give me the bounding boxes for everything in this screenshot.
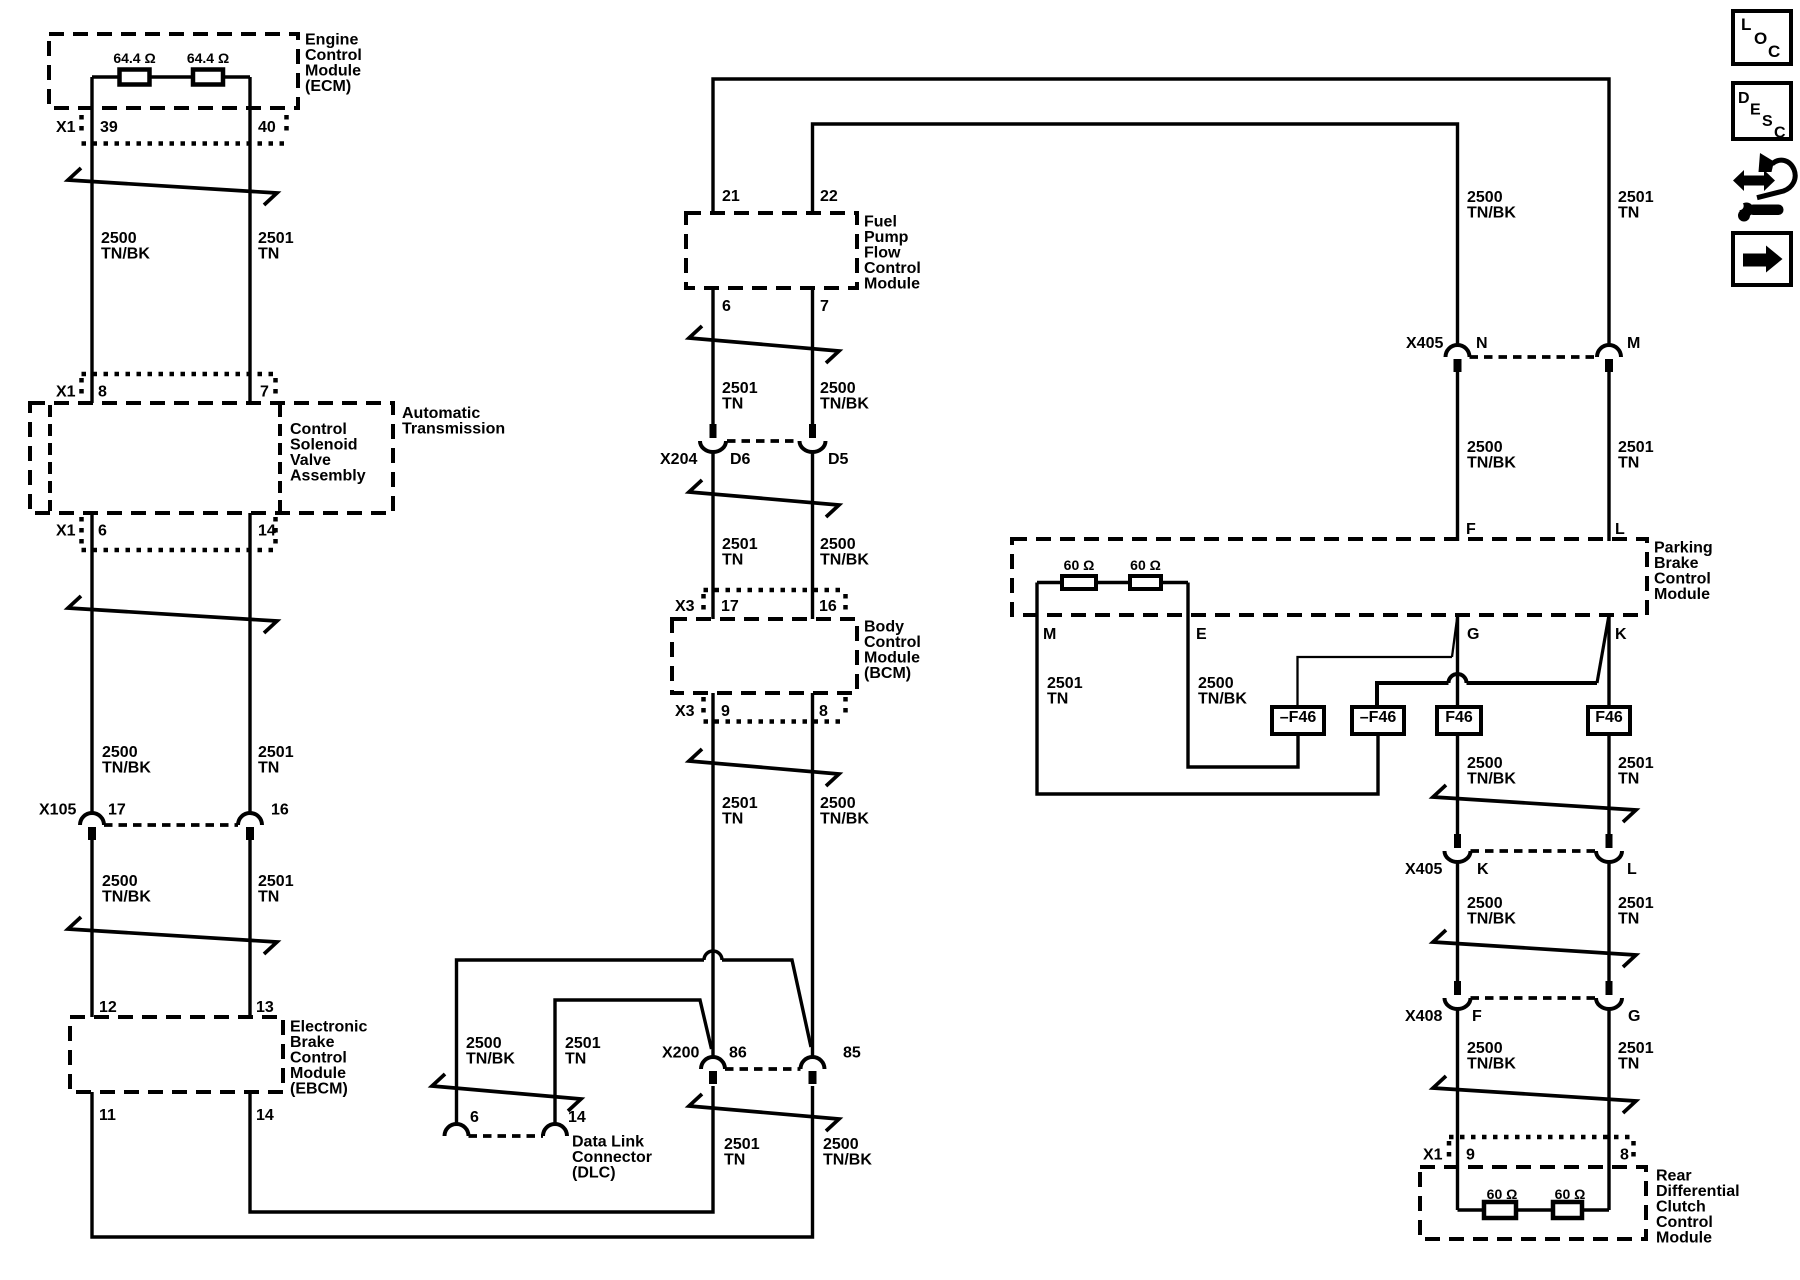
svg-text:14: 14 <box>256 1107 274 1124</box>
crossing break symbol (right pair, lower) <box>1433 1076 1636 1113</box>
wire RDCCM internal resistor leads <box>1458 1208 1610 1211</box>
connector X105 pin 17 <box>80 813 104 840</box>
svg-text:X1: X1 <box>56 119 76 136</box>
wire F46 left down to X405 K <box>1456 734 1459 834</box>
connector X405 K/L tie line <box>1471 849 1597 853</box>
svg-text:16: 16 <box>819 598 837 615</box>
svg-text:9: 9 <box>721 703 730 720</box>
Control Solenoid Valve Assembly left edge <box>278 405 282 511</box>
connector X408 tie line <box>1471 996 1597 1000</box>
svg-text:60 Ω: 60 Ω <box>1064 557 1095 573</box>
crossing break symbol (X200 pair) <box>689 1094 839 1131</box>
svg-text:6: 6 <box>98 523 107 540</box>
wire PBCM pin K main down to F46 <box>1607 615 1610 707</box>
connector row X3 (BCM pins 17/16) <box>704 590 846 615</box>
resistor 64.4 ohm (left, ECM internal) <box>120 70 150 85</box>
wire X408 G down into RDCCM <box>1607 1009 1610 1210</box>
wire DLC pin 6 branch to X200 85 <box>457 960 812 1124</box>
svg-text:17: 17 <box>108 802 126 819</box>
wire PBCM pin E internal <box>1186 583 1189 616</box>
svg-text:F46: F46 <box>1445 709 1473 726</box>
icon double-headed arrow <box>1733 170 1775 191</box>
wire PBCM pin G branch diagonal <box>1452 615 1458 657</box>
icon box LOC <box>1733 11 1791 64</box>
wire G branch horizontal to -F46 left <box>1298 657 1453 707</box>
wire hop over vertical at (713,960) <box>704 951 722 960</box>
svg-text:X1: X1 <box>56 384 76 401</box>
Automatic Transmission inner left edge <box>48 405 52 511</box>
fuse box F46 (left) <box>1437 707 1481 734</box>
svg-text:–F46: –F46 <box>1360 709 1397 726</box>
crossing break symbol (left pair, lower) <box>68 917 277 954</box>
wire 2501 TN from ECM pin 40 down <box>248 77 251 1017</box>
connector row X1 (ECM pins 39/40) <box>82 115 287 144</box>
connector X408 pin G <box>1596 981 1622 1009</box>
svg-text:M: M <box>1627 335 1640 352</box>
wire BCM X3-9 down to X200 86 <box>711 693 714 1057</box>
resistor 60 ohm (PBCM left) <box>1062 576 1096 589</box>
svg-text:86: 86 <box>729 1045 747 1062</box>
wire 2500 TN/BK FPFCM pin 22 to X405 N <box>813 124 1458 345</box>
wire EBCM pin 11 to X200 pin 85 <box>92 1086 813 1237</box>
svg-text:8: 8 <box>1620 1147 1629 1164</box>
svg-text:E: E <box>1196 626 1207 643</box>
svg-text:13: 13 <box>256 999 274 1016</box>
svg-text:X1: X1 <box>1423 1147 1443 1164</box>
svg-text:L: L <box>1627 861 1637 878</box>
svg-text:X408: X408 <box>1405 1008 1442 1025</box>
wire 2501 TN FPFCM pin 21 to X405 M <box>713 79 1609 345</box>
svg-text:39: 39 <box>100 119 118 136</box>
wire -F46 right to PBCM pin M <box>1037 615 1378 794</box>
Engine Control Module (ECM) box <box>49 34 298 108</box>
svg-text:9: 9 <box>1466 1147 1475 1164</box>
svg-text:D6: D6 <box>730 451 751 468</box>
resistor 60 ohm (RDCCM left) <box>1484 1202 1516 1218</box>
icon box right-arrow <box>1733 233 1791 285</box>
svg-text:8: 8 <box>98 384 107 401</box>
svg-text:X405: X405 <box>1405 861 1442 878</box>
wire X405 M down to PBCM pin L <box>1607 372 1610 541</box>
svg-text:11: 11 <box>99 1107 116 1124</box>
crossing break symbol (right pair, middle) <box>1433 930 1636 967</box>
wire 2500 TN/BK from ECM pin 39 down <box>90 77 93 1017</box>
svg-text:G: G <box>1628 1008 1640 1025</box>
wire BCM X3-8 down to X200 85 <box>811 693 814 1057</box>
svg-text:M: M <box>1043 626 1056 643</box>
connector X405 N/M tie line <box>1470 355 1598 359</box>
resistor 60 ohm (PBCM right) <box>1130 576 1161 589</box>
svg-text:12: 12 <box>99 999 117 1016</box>
crossing break symbol (left pair, middle) <box>68 596 277 633</box>
connector X204 pin D5 <box>800 424 826 452</box>
svg-text:17: 17 <box>721 598 739 615</box>
svg-text:60 Ω: 60 Ω <box>1487 1186 1518 1202</box>
svg-text:K: K <box>1615 626 1627 643</box>
icon box DESC <box>1733 83 1791 139</box>
connector X405 pin N <box>1446 345 1470 372</box>
connector X200 pin 85 <box>801 1057 825 1084</box>
crossing break symbol (middle pair, below BCM) <box>689 749 839 786</box>
svg-text:16: 16 <box>271 802 289 819</box>
svg-text:L: L <box>1615 521 1625 538</box>
svg-text:X204: X204 <box>660 451 697 468</box>
svg-text:X105: X105 <box>39 802 76 819</box>
Rear Differential Clutch Control Module box <box>1420 1167 1646 1239</box>
Fuel Pump Flow Control Module box <box>686 213 857 288</box>
wire PBCM pin M internal <box>1035 583 1038 616</box>
wire EBCM pin 14 to X200 pin 86 <box>250 1086 713 1212</box>
connector DLC pin 6 arc <box>445 1124 469 1136</box>
svg-text:64.4 Ω: 64.4 Ω <box>187 50 229 66</box>
svg-text:F: F <box>1466 521 1476 538</box>
wire FPFCM pin 6 down to X204 D6 <box>711 288 714 424</box>
wire X405 N down to PBCM pin F <box>1456 372 1459 541</box>
connector row X1 (RDCCM pins 9/8) <box>1449 1137 1634 1161</box>
connector X204 pin D6 <box>700 424 726 452</box>
svg-text:–F46: –F46 <box>1280 709 1317 726</box>
crossing break symbol (DLC pair) <box>432 1074 581 1111</box>
connector X105 tie line <box>104 823 238 827</box>
connector row X1 (transmission pins 8/7) <box>82 374 276 399</box>
svg-text:K: K <box>1477 861 1489 878</box>
crossing break symbol (left pair, upper) <box>68 168 277 205</box>
svg-text:N: N <box>1476 335 1488 352</box>
connector row X3 (BCM pins 9/8) <box>704 697 846 722</box>
connector X204 tie line <box>727 439 800 443</box>
resistor 64.4 ohm (right, ECM internal) <box>193 70 223 85</box>
svg-text:ParkingBrakeControlModule: ParkingBrakeControlModule <box>1654 540 1713 604</box>
svg-text:X1: X1 <box>56 523 76 540</box>
wire hop over vertical at (1457.5,683) <box>1449 674 1467 683</box>
svg-text:60 Ω: 60 Ω <box>1130 557 1161 573</box>
svg-text:14: 14 <box>568 1109 586 1126</box>
connector X408 pin F <box>1445 981 1471 1009</box>
wire X408 F down into RDCCM <box>1456 1009 1459 1210</box>
terminator box -F46 (right) <box>1352 707 1404 734</box>
wire X405 K down to X408 F <box>1456 862 1459 981</box>
crossing break symbol (middle pair, above BCM) <box>689 480 839 517</box>
svg-text:F46: F46 <box>1595 709 1623 726</box>
icon curved arrow outline <box>1757 160 1795 198</box>
connector X200 pin 86 <box>701 1057 725 1084</box>
wire PBCM pin G main down to F46 <box>1456 615 1459 707</box>
svg-text:D5: D5 <box>828 451 849 468</box>
connector X105 pin 16 <box>238 813 262 840</box>
connector DLC pin 14 arc <box>543 1124 567 1136</box>
svg-text:7: 7 <box>820 298 829 315</box>
wire ECM internal resistor leads <box>92 75 250 78</box>
wire X204 D6 down to BCM X3-17 <box>711 452 714 619</box>
connector X405 pin M <box>1597 345 1621 372</box>
connector X405 pin K <box>1445 834 1471 862</box>
svg-text:14: 14 <box>258 523 276 540</box>
crossing break symbol (right pair, upper) <box>1433 785 1636 822</box>
svg-text:X3: X3 <box>675 703 695 720</box>
svg-text:X200: X200 <box>662 1045 699 1062</box>
svg-text:F: F <box>1472 1008 1482 1025</box>
wire PBCM internal resistor leads <box>1037 581 1188 584</box>
wire FPFCM pin 7 down to X204 D5 <box>811 288 814 424</box>
terminator box -F46 (left) <box>1272 707 1324 734</box>
Automatic Transmission box <box>30 403 393 513</box>
svg-text:8: 8 <box>819 703 828 720</box>
svg-text:64.4 Ω: 64.4 Ω <box>113 50 155 66</box>
svg-text:21: 21 <box>722 188 740 205</box>
svg-text:85: 85 <box>843 1045 861 1062</box>
wire X405 L down to X408 G <box>1607 862 1610 981</box>
wire K branch horizontal to -F46 right <box>1377 683 1597 707</box>
wire -F46 left to PBCM pin E <box>1188 615 1298 767</box>
Parking Brake Control Module box <box>1012 539 1647 615</box>
svg-text:22: 22 <box>820 188 838 205</box>
icon wrench <box>1735 202 1783 222</box>
connector X405 pin L <box>1596 834 1622 862</box>
icon curved arrow head <box>1759 153 1775 172</box>
wire F46 right down to X405 L <box>1607 734 1610 834</box>
svg-text:6: 6 <box>470 1109 479 1126</box>
Electronic Brake Control Module (EBCM) box <box>70 1017 283 1092</box>
Body Control Module (BCM) box <box>672 619 857 693</box>
icon right arrow <box>1743 246 1783 273</box>
svg-text:7: 7 <box>260 384 269 401</box>
svg-text:X405: X405 <box>1406 335 1443 352</box>
svg-text:40: 40 <box>258 119 276 136</box>
svg-text:6: 6 <box>722 298 731 315</box>
connector row X1 (transmission pins 6/14) <box>82 517 276 550</box>
wire DLC pin 14 branch to X200 86 <box>555 1000 712 1124</box>
crossing break symbol (middle pair, upper) <box>689 326 839 363</box>
wire X204 D5 down to BCM X3-16 <box>811 452 814 619</box>
wire PBCM pin K branch diagonal <box>1597 615 1609 683</box>
connector X200 tie line <box>725 1067 801 1071</box>
svg-text:60 Ω: 60 Ω <box>1555 1186 1586 1202</box>
fuse box F46 (right) <box>1588 707 1630 734</box>
svg-text:X3: X3 <box>675 598 695 615</box>
connector DLC tie line <box>469 1134 544 1138</box>
svg-text:G: G <box>1467 626 1479 643</box>
resistor 60 ohm (RDCCM right) <box>1553 1202 1582 1218</box>
